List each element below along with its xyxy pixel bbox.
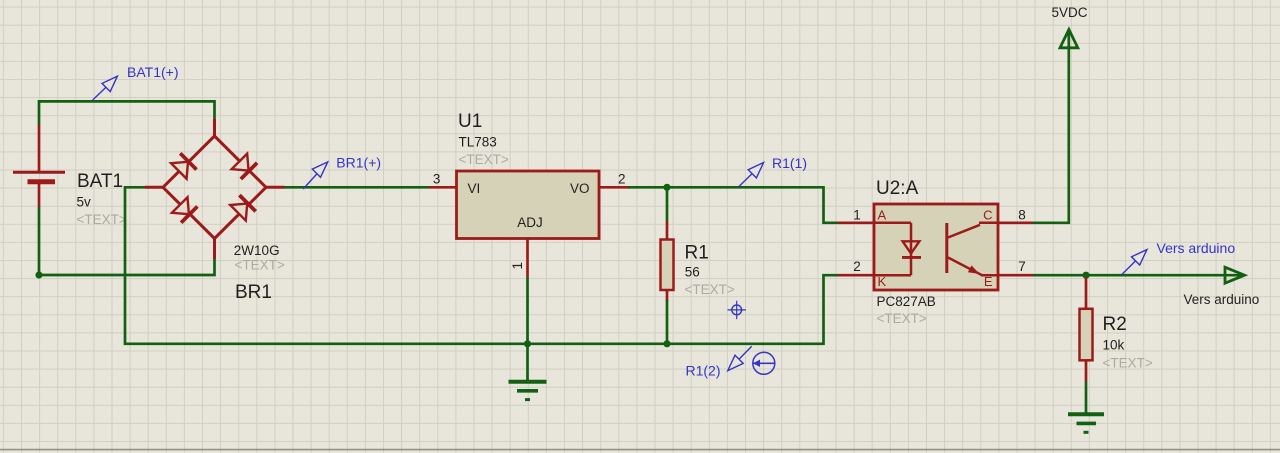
svg-text:5VDC: 5VDC [1052,5,1088,20]
diode BR1 top-left [171,153,197,179]
label BR1 [234,243,285,303]
wire BAT1(+) net top [39,101,215,125]
marker origin circle-arrow [753,352,775,374]
wire bridge left to ground bus to U2 pin2 [125,187,838,343]
wire bridge right to U1 VI [285,186,430,189]
junction R1 ground [663,340,670,347]
label R1 [685,242,735,297]
ground under U1 [509,344,547,400]
wire U2 pin8 to 5VDC [1033,33,1069,223]
svg-text:BR1: BR1 [235,282,272,303]
svg-text:7: 7 [1018,259,1026,274]
net label Vers arduino [1122,240,1236,275]
diode BR1 top-right [231,153,257,179]
wire battery negative to bridge bottom [39,207,215,275]
junction ADJ ground [524,340,531,347]
svg-text:2: 2 [853,259,861,274]
svg-text:3: 3 [433,172,441,187]
resistor R2 [1080,277,1093,382]
svg-text:<TEXT>: <TEXT> [77,212,127,227]
net label R1(2) [686,346,752,378]
svg-text:PC827AB: PC827AB [877,294,936,309]
svg-text:2: 2 [618,172,626,187]
diode BR1 bottom-left [172,197,198,223]
label U1 [458,111,509,167]
svg-text:8: 8 [1018,208,1026,223]
svg-text:BAT1(+): BAT1(+) [127,64,178,80]
svg-text:VO: VO [570,181,590,196]
power terminal 5VDC [1052,5,1088,48]
svg-text:ADJ: ADJ [517,215,543,230]
wire R2 to ground [1085,382,1088,414]
label BAT1 [77,171,127,227]
svg-text:E: E [984,274,993,289]
svg-text:5v: 5v [77,194,92,209]
wire junction to R1 [666,187,669,221]
net label BR1(+) [303,154,381,189]
wire U1 VO to U2 pin1 [628,187,838,223]
voltage regulator U1 [429,171,631,277]
wire U2 pin7 output [1033,274,1243,277]
svg-text:1: 1 [510,262,525,270]
ground under R2 [1068,414,1104,432]
svg-text:2W10G: 2W10G [234,243,280,258]
resistor R1 [661,221,674,301]
svg-text:VI: VI [468,181,481,196]
label U2:A [876,178,936,326]
svg-text:A: A [878,208,887,223]
svg-text:<TEXT>: <TEXT> [877,311,927,326]
junction VO / R1 [663,184,670,191]
junction battery bottom [35,271,42,278]
wire R1 to ground bus [666,300,669,344]
svg-text:R2: R2 [1103,314,1127,335]
svg-text:C: C [983,208,992,223]
marker crosshair [728,301,747,319]
svg-text:10k: 10k [1103,338,1125,353]
svg-text:1: 1 [853,208,861,223]
diode BR1 bottom-right [230,195,256,221]
svg-text:<TEXT>: <TEXT> [685,282,735,297]
svg-text:Vers arduino: Vers arduino [1184,292,1260,307]
label R2 [1103,314,1153,371]
optocoupler U2:A [838,204,1033,290]
wire U1 ADJ to ground bus [526,277,529,344]
svg-text:R1: R1 [685,242,709,263]
battery BAT1 [13,125,65,207]
svg-text:K: K [878,274,887,289]
svg-text:R1(1): R1(1) [772,155,807,171]
svg-text:<TEXT>: <TEXT> [459,152,509,167]
net label BAT1(+) [93,64,179,100]
svg-text:TL783: TL783 [459,135,497,150]
output terminal arrow [1225,267,1245,283]
svg-text:R1(2): R1(2) [686,363,721,379]
net label R1(1) [738,155,807,187]
bridge rectifier BR1 [145,119,285,259]
svg-text:Vers arduino: Vers arduino [1157,240,1236,256]
svg-text:BR1(+): BR1(+) [336,154,381,170]
svg-text:U1: U1 [458,111,482,132]
svg-text:<TEXT>: <TEXT> [1103,356,1153,371]
svg-text:<TEXT>: <TEXT> [235,257,285,272]
svg-text:U2:A: U2:A [876,178,919,199]
svg-text:BAT1: BAT1 [77,171,123,192]
junction R2 [1082,272,1089,279]
svg-text:56: 56 [685,265,700,280]
